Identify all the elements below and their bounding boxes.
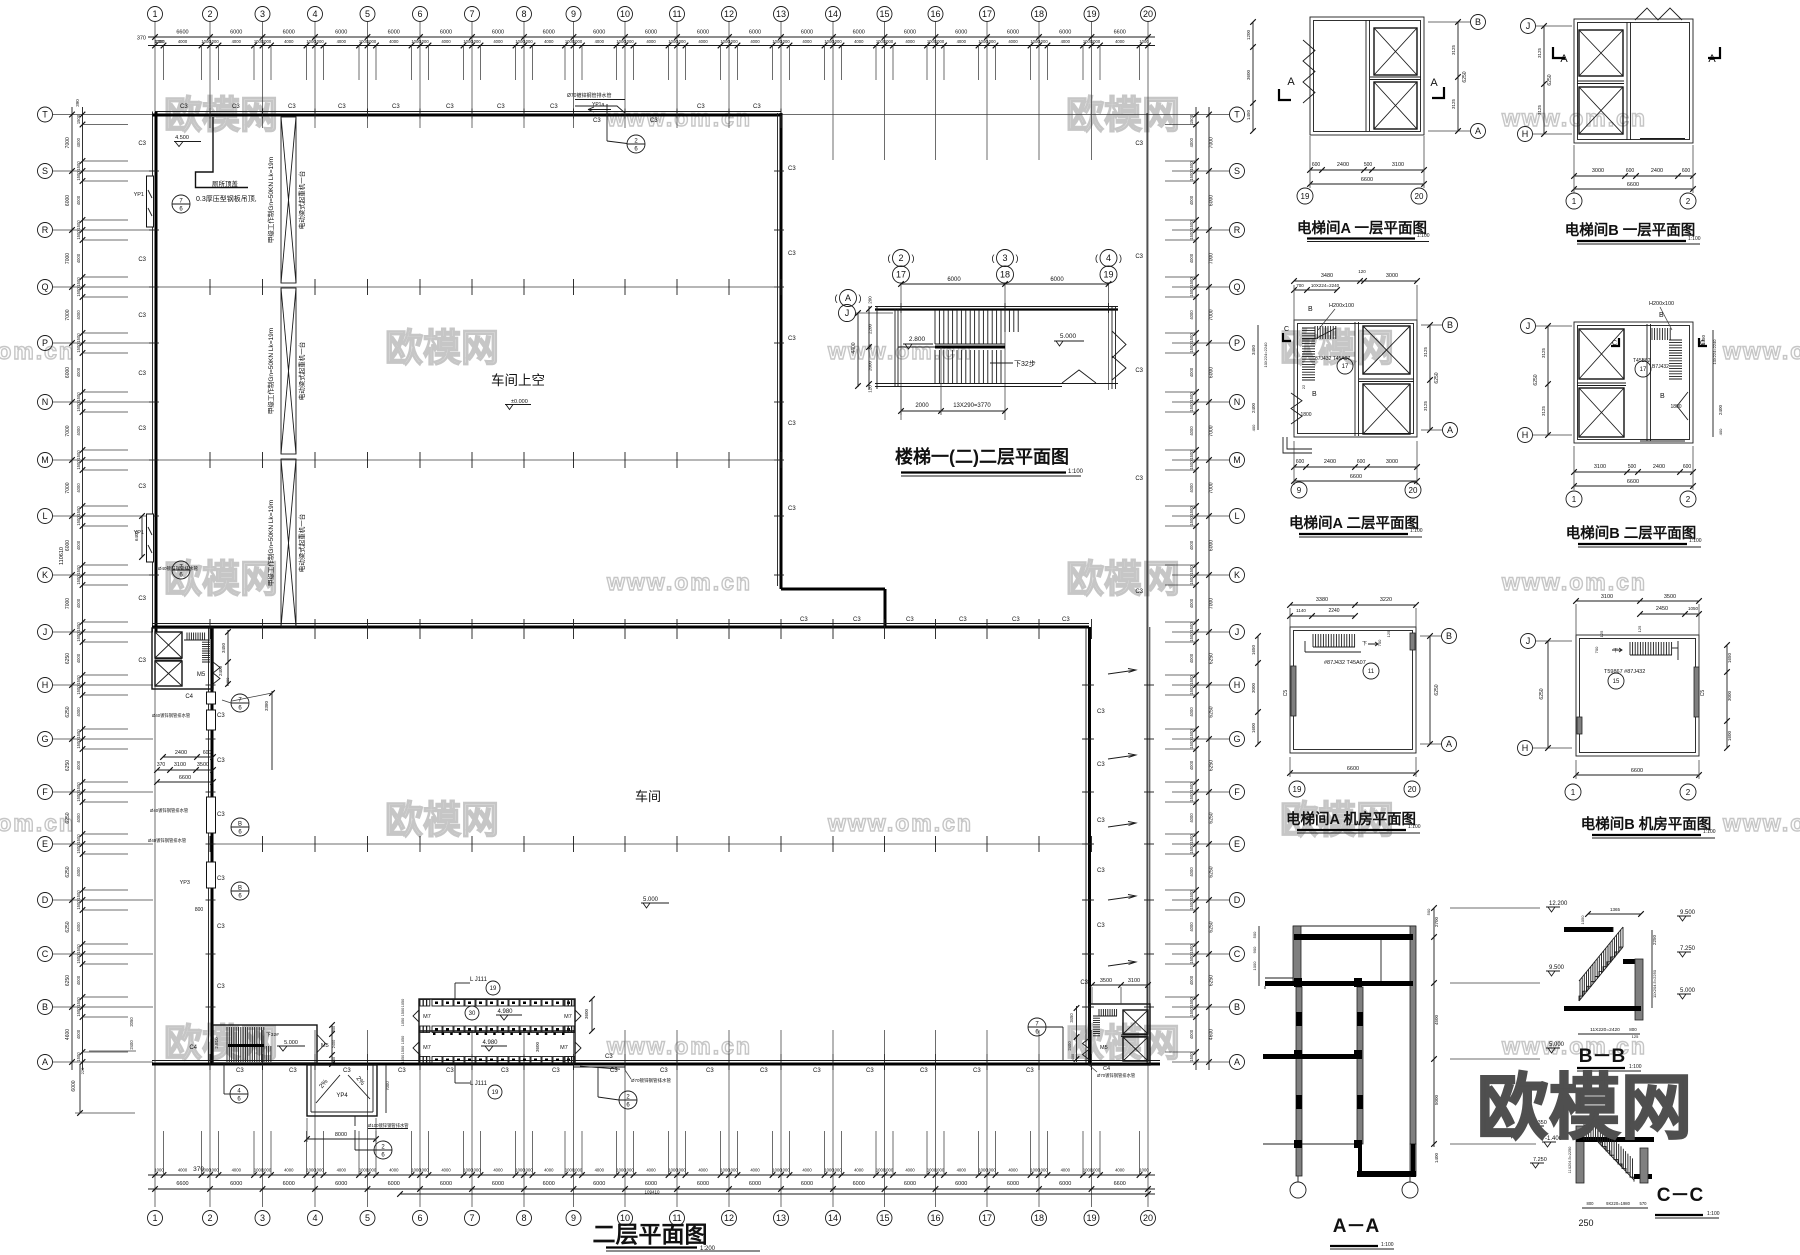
svg-text:17: 17 [982, 9, 992, 19]
svg-text:6250: 6250 [1434, 684, 1440, 695]
svg-text:B: B [238, 822, 242, 828]
svg-text:1000: 1000 [367, 39, 377, 44]
svg-text:8: 8 [521, 1213, 526, 1223]
svg-text:1000: 1000 [884, 39, 894, 44]
svg-text:6000: 6000 [388, 30, 400, 36]
svg-text:2: 2 [1686, 495, 1691, 504]
svg-text:3480: 3480 [1321, 273, 1333, 279]
svg-text:3000: 3000 [1251, 682, 1256, 693]
svg-text:4000: 4000 [905, 39, 915, 44]
svg-text:6250: 6250 [65, 653, 71, 664]
svg-text:6: 6 [417, 1213, 422, 1223]
svg-text:4000: 4000 [1189, 922, 1194, 932]
svg-text:200: 200 [868, 296, 873, 304]
bottom grid verticals [154, 1065, 156, 1207]
svg-text:M5: M5 [321, 1043, 329, 1049]
svg-text:Q: Q [1233, 282, 1240, 292]
svg-text:1000: 1000 [1139, 39, 1149, 44]
svg-text:2000: 2000 [915, 403, 929, 409]
detail3 stair [1302, 328, 1315, 380]
svg-text:1500: 1500 [76, 506, 81, 516]
svg-text:1650: 1650 [1727, 652, 1732, 663]
inner wall ticks [1082, 684, 1094, 686]
svg-text:H200x100: H200x100 [1649, 301, 1674, 307]
svg-text:6000: 6000 [230, 1181, 242, 1187]
svg-text:R: R [42, 225, 49, 235]
svg-text:5.000: 5.000 [1060, 333, 1077, 340]
svg-text:C3: C3 [760, 1068, 768, 1074]
svg-text:C3: C3 [973, 1068, 981, 1074]
svg-text:4000: 4000 [76, 975, 81, 985]
svg-text:4000: 4000 [1115, 39, 1125, 44]
detail6 top dims [1576, 600, 1699, 602]
svg-text:19: 19 [1086, 9, 1096, 19]
svg-text:C3: C3 [217, 924, 225, 930]
detail: elevator A level2 plan [1294, 320, 1417, 437]
detail circle 4/6 [230, 1085, 248, 1103]
svg-text:B: B [1447, 320, 1453, 330]
svg-text:120: 120 [1358, 269, 1366, 274]
bottom dimension chain [148, 1174, 1155, 1176]
interior row E line [215, 843, 1085, 845]
svg-text:1000: 1000 [728, 1168, 738, 1173]
svg-text:1: 1 [1571, 788, 1576, 797]
left dimension chains [71, 107, 73, 1070]
svg-text:1000: 1000 [262, 1168, 272, 1173]
svg-text:4000: 4000 [1189, 975, 1194, 985]
svg-text:S: S [1234, 166, 1240, 176]
svg-text:1000: 1000 [523, 1168, 533, 1173]
svg-text:3380: 3380 [1316, 597, 1328, 603]
svg-text:2400: 2400 [1337, 162, 1349, 168]
svg-text:1000: 1000 [523, 39, 533, 44]
svg-text:1800: 1800 [1670, 404, 1681, 410]
svg-text:6000: 6000 [955, 1181, 967, 1187]
svg-text:C3: C3 [1026, 1068, 1034, 1074]
svg-text:Ø70镀锌钢管排水管: Ø70镀锌钢管排水管 [1097, 1072, 1136, 1079]
svg-text:1600: 1600 [1727, 730, 1732, 741]
svg-text:1000: 1000 [314, 39, 324, 44]
svg-text:6000: 6000 [645, 30, 657, 36]
crane beam 3 [281, 459, 296, 627]
svg-text:6600: 6600 [1627, 182, 1639, 188]
svg-text:Ø100镀锌钢管排水管: Ø100镀锌钢管排水管 [368, 1122, 409, 1129]
svg-text:3500: 3500 [197, 762, 209, 768]
inner right wall col 19 [1085, 627, 1087, 1063]
svg-text:C3: C3 [788, 251, 796, 257]
svg-text:19: 19 [1301, 192, 1310, 201]
B-B right dims [1651, 930, 1653, 1008]
svg-text:4: 4 [312, 9, 317, 19]
svg-text:1500: 1500 [401, 1046, 405, 1054]
svg-text:1500: 1500 [76, 729, 81, 739]
detail5 bottom dims [1290, 772, 1416, 774]
svg-text:1500: 1500 [76, 792, 81, 802]
svg-text:6000: 6000 [593, 30, 605, 36]
detail5 C5 windows [1291, 666, 1296, 716]
svg-text:K: K [1234, 570, 1240, 580]
svg-text:8: 8 [521, 9, 526, 19]
svg-text:C3: C3 [398, 1068, 406, 1074]
svg-text:电动梁式起重机一台: 电动梁式起重机一台 [297, 342, 306, 401]
svg-text:C3: C3 [1080, 980, 1088, 986]
svg-text:7000: 7000 [1209, 309, 1215, 320]
svg-text:7: 7 [469, 9, 474, 19]
svg-text:欧模网: 欧模网 [1066, 95, 1180, 137]
svg-text:3380: 3380 [264, 700, 269, 711]
svg-text:16: 16 [930, 1213, 940, 1223]
svg-text:500: 500 [1364, 162, 1373, 168]
interior row Q line [158, 286, 778, 288]
svg-text:Ø40镀锌钢管排水管: Ø40镀锌钢管排水管 [148, 837, 187, 844]
svg-text:(: ( [835, 293, 838, 303]
svg-text:L J111: L J111 [470, 1081, 488, 1087]
svg-text:D: D [1234, 895, 1241, 905]
svg-text:1000: 1000 [624, 1168, 634, 1173]
svg-text:4000: 4000 [76, 483, 81, 493]
svg-text:H: H [42, 680, 49, 690]
svg-text:4000: 4000 [1189, 813, 1194, 823]
svg-text:1500: 1500 [1189, 622, 1194, 632]
svg-text:1:100: 1:100 [1410, 528, 1423, 534]
svg-text:): ) [912, 253, 915, 263]
svg-text:3100: 3100 [1128, 978, 1140, 984]
svg-text:1500: 1500 [76, 161, 81, 171]
svg-text:7000: 7000 [65, 482, 71, 493]
svg-text:下32#: 下32# [266, 1032, 279, 1038]
svg-text:电梯间B 一层平面图: 电梯间B 一层平面图 [1565, 221, 1696, 239]
svg-text:T59867 #87J432: T59867 #87J432 [1604, 669, 1645, 675]
svg-text:6250: 6250 [1434, 372, 1440, 383]
svg-text:1500: 1500 [1189, 450, 1194, 460]
svg-text:15: 15 [879, 1213, 889, 1223]
svg-text:1000: 1000 [154, 1168, 164, 1173]
svg-text:B: B [1446, 631, 1452, 641]
svg-text:C5: C5 [1283, 690, 1289, 697]
svg-text:125: 125 [1637, 625, 1642, 632]
svg-text:P: P [42, 338, 48, 348]
svg-text:二层平面图: 二层平面图 [593, 1221, 708, 1247]
svg-text:A: A [1234, 1057, 1240, 1067]
svg-text:Ø40镀锌钢管排水管: Ø40镀锌钢管排水管 [158, 565, 199, 572]
svg-text:www.om.cn: www.om.cn [1722, 810, 1800, 836]
svg-text:C3: C3 [288, 104, 296, 110]
svg-text:C5: C5 [1700, 690, 1706, 697]
svg-text:6000: 6000 [801, 1181, 813, 1187]
svg-text:1:100: 1:100 [1417, 233, 1430, 239]
svg-text:4000: 4000 [1189, 1029, 1194, 1039]
svg-text:4600: 4600 [65, 1029, 71, 1040]
svg-text:C3: C3 [788, 421, 796, 427]
left wall below J [208, 628, 210, 1063]
svg-text:C3: C3 [338, 104, 346, 110]
svg-text:C3: C3 [959, 617, 967, 623]
svg-text:6000: 6000 [492, 1181, 504, 1187]
svg-text:3600: 3600 [584, 1008, 589, 1019]
svg-text:C3: C3 [1062, 617, 1070, 623]
detail3 axis [1443, 318, 1458, 333]
svg-text:4000: 4000 [76, 707, 81, 717]
svg-text:700: 700 [1594, 646, 1599, 653]
bottom axis circles 1-20 [148, 1211, 163, 1226]
svg-text:4000: 4000 [544, 39, 554, 44]
svg-text:1500: 1500 [1189, 565, 1194, 575]
svg-text:9: 9 [1297, 486, 1302, 495]
svg-text:7.250: 7.250 [1533, 1157, 1547, 1163]
svg-text:1500: 1500 [1189, 997, 1194, 1007]
svg-text:6000: 6000 [440, 30, 452, 36]
svg-text:1000: 1000 [832, 1168, 842, 1173]
svg-text:1500: 1500 [76, 171, 81, 181]
svg-text:4.980: 4.980 [497, 1009, 513, 1015]
svg-text:7: 7 [469, 1213, 474, 1223]
svg-text:1450: 1450 [1246, 109, 1251, 120]
svg-text:1500: 1500 [1189, 739, 1194, 749]
svg-text:6600: 6600 [1347, 766, 1359, 772]
svg-text:1000: 1000 [935, 1168, 945, 1173]
svg-text:16: 16 [930, 9, 940, 19]
svg-text:5.000: 5.000 [1549, 1042, 1565, 1048]
svg-text:www.om.cn: www.om.cn [606, 569, 752, 595]
svg-text:1000: 1000 [986, 1168, 996, 1173]
svg-text:6000: 6000 [697, 1181, 709, 1187]
svg-text:甲级工作制Gn=50KN Lk=19m: 甲级工作制Gn=50KN Lk=19m [266, 157, 275, 243]
svg-text:Ø70镀锌钢管排水管: Ø70镀锌钢管排水管 [631, 1077, 672, 1084]
detail: elevator B machine-room plan [1576, 635, 1699, 756]
svg-text:6250: 6250 [65, 812, 71, 823]
svg-text:12.200: 12.200 [1549, 901, 1568, 907]
detail6 bottom dims [1576, 774, 1699, 776]
svg-text:C4: C4 [189, 1045, 197, 1051]
svg-text:12: 12 [724, 9, 734, 19]
svg-text:1050: 1050 [1580, 915, 1585, 925]
svg-text:6600: 6600 [176, 30, 188, 36]
svg-text:1000: 1000 [1038, 39, 1048, 44]
svg-text:22: 22 [1301, 384, 1306, 389]
svg-text:19: 19 [1293, 785, 1302, 794]
svg-text:6250: 6250 [1209, 866, 1215, 877]
detail: elevator A level1 plan [1310, 17, 1424, 135]
svg-text:J: J [1526, 636, 1531, 646]
svg-text:700: 700 [1296, 283, 1304, 288]
svg-text:下: 下 [1613, 648, 1618, 654]
svg-text:1000: 1000 [780, 1168, 790, 1173]
svg-text:Ø70镀锌钢管排水管: Ø70镀锌钢管排水管 [567, 92, 611, 99]
svg-text:11X204.5=2250: 11X204.5=2250 [1652, 969, 1657, 998]
svg-text:1:100: 1:100 [1381, 1242, 1394, 1248]
svg-text:J: J [845, 308, 850, 318]
detail6 C5 windows [1694, 667, 1699, 717]
svg-text:800: 800 [1629, 1027, 1637, 1032]
svg-text:B: B [238, 886, 242, 892]
svg-text:车间上空: 车间上空 [491, 372, 545, 388]
svg-text:18: 18 [1000, 270, 1010, 280]
svg-text:3125: 3125 [1537, 104, 1542, 115]
svg-text:6000: 6000 [492, 30, 504, 36]
svg-text:1500: 1500 [76, 575, 81, 585]
stair mid rail [935, 346, 1005, 349]
svg-text:A: A [42, 1057, 48, 1067]
svg-text:R: R [1234, 225, 1241, 235]
svg-text:6000: 6000 [853, 30, 865, 36]
svg-text:1:100: 1:100 [1068, 469, 1084, 475]
svg-text:1000: 1000 [367, 1168, 377, 1173]
svg-text:Ø40镀锌钢管排水管: Ø40镀锌钢管排水管 [150, 807, 189, 814]
stair detail top dim [901, 283, 1109, 285]
svg-text:T: T [42, 110, 48, 120]
svg-text:车间: 车间 [635, 789, 661, 804]
svg-text:6250: 6250 [1209, 812, 1215, 823]
svg-text:2400: 2400 [218, 665, 223, 676]
svg-text:1000: 1000 [676, 39, 686, 44]
svg-text:400: 400 [225, 677, 230, 684]
svg-text:17: 17 [1342, 364, 1349, 370]
svg-text:4000: 4000 [178, 39, 188, 44]
svg-text:4000: 4000 [232, 1168, 242, 1173]
svg-text:5.000: 5.000 [643, 897, 659, 903]
svg-text:6000: 6000 [230, 30, 242, 36]
svg-text:600: 600 [1626, 168, 1635, 174]
svg-text:4000: 4000 [544, 1168, 554, 1173]
svg-text:B: B [1308, 306, 1313, 313]
svg-text:L: L [1234, 511, 1239, 521]
main plan top wall [155, 111, 781, 113]
svg-text:1000: 1000 [471, 39, 481, 44]
svg-text:17: 17 [896, 270, 906, 280]
svg-text:1500: 1500 [76, 450, 81, 460]
svg-text:1000: 1000 [780, 39, 790, 44]
svg-text:2: 2 [1686, 788, 1691, 797]
svg-text:C: C [1234, 949, 1241, 959]
svg-text:1000: 1000 [471, 1168, 481, 1173]
svg-text:C3: C3 [1097, 762, 1105, 768]
svg-text:6000: 6000 [1209, 195, 1215, 206]
svg-text:YP3: YP3 [180, 880, 190, 886]
svg-text:C3: C3 [501, 1068, 509, 1074]
svg-text:C: C [42, 949, 49, 959]
svg-text:B－B: B－B [1579, 1046, 1625, 1067]
svg-text:C3: C3 [660, 1068, 668, 1074]
svg-text:6600: 6600 [1350, 474, 1362, 480]
svg-text:1500: 1500 [76, 834, 81, 844]
crane beam 2 [281, 288, 296, 454]
svg-text:K: K [42, 570, 48, 580]
svg-text:C3: C3 [138, 596, 146, 602]
svg-text:1500: 1500 [76, 1007, 81, 1017]
svg-text:2400: 2400 [332, 1040, 336, 1048]
svg-text:1: 1 [1572, 495, 1577, 504]
svg-text:6250: 6250 [65, 921, 71, 932]
svg-text:(: ( [888, 253, 891, 263]
svg-text:4000: 4000 [76, 367, 81, 377]
svg-text:C3: C3 [605, 1054, 613, 1060]
svg-text:1000: 1000 [1091, 1168, 1101, 1173]
detail: elevator A machine-room plan [1290, 627, 1416, 753]
svg-text:1800: 1800 [1300, 412, 1311, 418]
svg-text:570: 570 [1640, 1201, 1648, 1206]
svg-text:M7: M7 [423, 1045, 431, 1051]
svg-text:C3: C3 [1135, 254, 1143, 260]
svg-text:1500: 1500 [76, 402, 81, 412]
svg-text:1: 1 [1572, 197, 1577, 206]
left axis letter circles [38, 107, 53, 122]
stair detail doors [1112, 331, 1126, 358]
svg-text:600: 600 [1296, 459, 1305, 465]
svg-text:C3: C3 [788, 506, 796, 512]
svg-text:www.om.cn: www.om.cn [1501, 569, 1647, 595]
svg-text:C3: C3 [753, 104, 761, 110]
svg-text:1500: 1500 [1189, 230, 1194, 240]
outer right wall col 20 [1146, 113, 1148, 1063]
step wall at row K+ [781, 588, 885, 591]
svg-text:6000: 6000 [1050, 277, 1064, 283]
svg-text:1500: 1500 [76, 782, 81, 792]
svg-text:4.980: 4.980 [482, 1040, 498, 1046]
svg-text:6000: 6000 [1007, 1181, 1019, 1187]
svg-text:2000: 2000 [868, 360, 873, 371]
svg-text:1050: 1050 [401, 1018, 405, 1026]
top dimension chain [148, 36, 1155, 38]
detail2 bottom dims [1574, 175, 1693, 177]
svg-text:6000: 6000 [749, 1181, 761, 1187]
svg-text:1500: 1500 [76, 900, 81, 910]
stair treads lower flight [935, 350, 1001, 383]
detail3 bottom dims [1294, 466, 1417, 468]
svg-text:3: 3 [260, 1213, 265, 1223]
svg-text:2050: 2050 [129, 1017, 134, 1027]
svg-text:4000: 4000 [76, 137, 81, 147]
svg-text:6000: 6000 [543, 30, 555, 36]
svg-text:7000: 7000 [65, 137, 71, 148]
svg-text:A: A [1475, 126, 1481, 136]
svg-text:D: D [42, 895, 49, 905]
svg-text:C3: C3 [138, 257, 146, 263]
svg-text:900: 900 [1252, 946, 1257, 953]
svg-text:6000: 6000 [65, 367, 71, 378]
svg-text:109410: 109410 [644, 1190, 660, 1195]
svg-text:1500: 1500 [1189, 1052, 1194, 1062]
svg-text:1:200: 1:200 [700, 1246, 716, 1252]
grid1 line below J [154, 632, 156, 1063]
detail1 bottom dims [1310, 169, 1424, 171]
svg-text:1000: 1000 [728, 39, 738, 44]
svg-text:1:100: 1:100 [1688, 236, 1701, 242]
svg-text:6000: 6000 [1059, 30, 1071, 36]
svg-text:1200: 1200 [1246, 29, 1251, 40]
svg-text:C3: C3 [180, 104, 188, 110]
svg-text:C3: C3 [1135, 476, 1143, 482]
stair detail plan walls [875, 306, 1118, 308]
svg-text:2250: 2250 [1652, 934, 1657, 945]
svg-text:C3: C3 [497, 104, 505, 110]
svg-text:13: 13 [776, 1213, 786, 1223]
svg-text:C3: C3 [138, 484, 146, 490]
svg-text:6250: 6250 [1209, 653, 1215, 664]
svg-text:4000: 4000 [854, 1168, 864, 1173]
svg-text:5.000: 5.000 [284, 1040, 298, 1046]
svg-text:400: 400 [1718, 428, 1723, 435]
svg-text:A: A [1430, 77, 1438, 89]
svg-text:1500: 1500 [76, 565, 81, 575]
svg-text:6000: 6000 [801, 30, 813, 36]
svg-text:1600: 1600 [1251, 722, 1256, 733]
svg-text:B: B [1312, 391, 1317, 398]
svg-text:欧模网: 欧模网 [1066, 559, 1180, 601]
svg-text:6000: 6000 [904, 1181, 916, 1187]
svg-text:4000: 4000 [1189, 310, 1194, 320]
svg-text:1500: 1500 [1189, 402, 1194, 412]
svg-text:楼梯一(二)二层平面图: 楼梯一(二)二层平面图 [895, 446, 1069, 467]
